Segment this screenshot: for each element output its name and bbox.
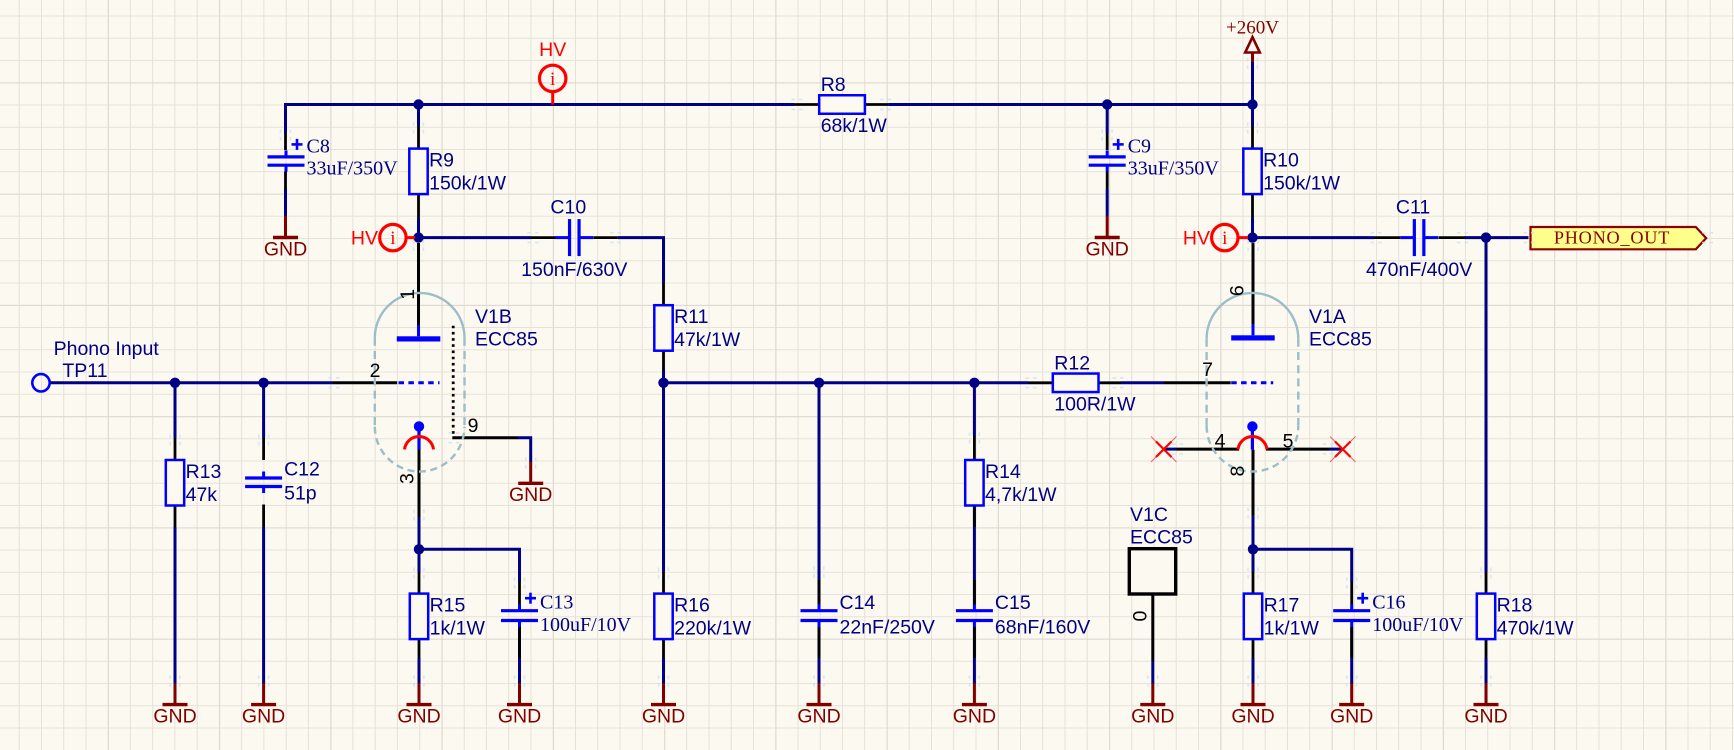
junction node A R14 [969,378,979,388]
junction rail-R9 [413,99,423,109]
junction rail-C9 [1102,99,1112,109]
wire phono input line [50,381,333,384]
wire pin9 to ground [518,438,531,462]
svg-text:R13: R13 [186,461,222,483]
capacitor C13 [501,593,538,627]
wire R9 to HV node [417,218,420,238]
svg-text:R8: R8 [821,74,846,96]
resistor R13 [166,460,184,506]
svg-text:R11: R11 [674,306,708,328]
wire C13 to ground [518,627,521,684]
pin 6 V1A [1252,243,1255,324]
svg-text:1k/1W: 1k/1W [1264,618,1320,640]
no-connect X pin 5 [1330,437,1356,463]
svg-text:C10: C10 [550,197,586,219]
power +260V [1245,37,1260,62]
wire C15 to ground [973,627,976,684]
wire top HV rail left segment [286,103,795,106]
capacitor C9 [1089,139,1126,172]
svg-text:68nF/160V: 68nF/160V [995,617,1090,639]
svg-text:47k/1W: 47k/1W [674,329,741,351]
no-connect X pin 4 [1151,437,1177,463]
pin R11 top [662,283,665,306]
resistor R14 [965,460,983,506]
wire junction to R17 [1252,549,1255,572]
wire R10 drop from rail [1251,105,1254,127]
wire C14 drop [818,383,821,605]
ground [1464,683,1507,727]
pin C13 top [518,582,521,605]
wire junction to C13 [419,549,520,581]
ground [1131,683,1174,727]
wire pin5 stub [1329,448,1342,451]
ground [242,683,285,727]
capacitor C16 [1333,593,1370,627]
svg-text:220k/1W: 220k/1W [674,618,752,640]
pin R9 bottom [417,194,420,219]
svg-text:GND: GND [498,705,541,727]
svg-text:150k/1W: 150k/1W [429,173,507,195]
svg-text:C12: C12 [284,459,320,481]
svg-text:47k: 47k [186,484,218,506]
wire pin8 V1A to junction [1252,515,1255,549]
wire cathode V1B to junction [418,517,421,549]
triode V1A envelope [1207,293,1299,472]
pin C16 top [1350,582,1353,605]
svg-text:470k/1W: 470k/1W [1497,618,1575,640]
wire V1C pin to ground [1151,661,1154,684]
wire C9 to ground [1106,189,1109,217]
wire R14 drop [973,383,976,436]
ground [264,216,307,260]
svg-text:C15: C15 [995,592,1031,614]
svg-text:R10: R10 [1263,150,1299,172]
svg-text:150nF/630V: 150nF/630V [521,259,627,281]
wire C8 drop from rail [284,103,287,133]
svg-text:V1A: V1A [1309,306,1346,328]
pin R15 top [418,572,421,594]
pin 8 V1A [1252,450,1255,515]
pin R16 bottom [662,638,665,658]
pin R12 right [1097,381,1122,384]
wire R12 to pin7 V1A [1121,381,1164,384]
wire R16 drop [662,383,665,572]
wire C9 drop from rail [1106,105,1109,134]
pin C10 right [594,236,618,239]
svg-text:GND: GND [1086,238,1129,260]
ground [153,683,196,727]
power HV right [1212,224,1248,250]
pin connection markers [170,58,1713,686]
wire C11 to port [1465,236,1529,239]
triode V1B envelope [375,293,465,472]
svg-text:ECC85: ECC85 [475,328,538,350]
pin C14 top [818,580,821,605]
svg-text:GND: GND [953,705,996,727]
pin C15 top [973,580,976,605]
pin C11 left [1374,236,1400,239]
svg-text:HV: HV [539,39,566,61]
pin R8 right [864,103,889,106]
pin R18 top [1485,572,1488,594]
junction phono-C12 [258,378,268,388]
wire junction to R15 [418,549,421,572]
svg-text:4,7k/1W: 4,7k/1W [985,484,1057,506]
svg-text:GND: GND [1464,705,1507,727]
svg-text:GND: GND [153,705,196,727]
triode V1B heater [452,326,455,436]
svg-text:i: i [1222,228,1227,249]
power HV left [380,224,415,250]
wire HV node to C11 [1253,236,1375,239]
wire R15 to ground [418,658,421,684]
wire top HV rail right segment [888,103,1252,106]
svg-text:150k/1W: 150k/1W [1263,173,1341,195]
pin C16 bottom [1350,627,1353,659]
svg-text:R12: R12 [1054,352,1090,374]
resistor R8 [819,95,865,114]
pin R12 left [1029,381,1054,384]
svg-text:GND: GND [1131,705,1174,727]
svg-text:C14: C14 [840,592,876,614]
resistor R15 [410,594,428,640]
wire pin4 stub [1164,448,1177,451]
wire C12 drop [262,383,265,438]
pin C14 bottom [818,627,821,659]
wire R16 to ground [662,658,665,684]
capacitor C8 [268,139,305,172]
wire C8 to ground [284,189,287,217]
pin R16 top [662,572,665,594]
wire C10 to R11 corner [618,238,664,283]
svg-text:7: 7 [1202,359,1213,381]
ground [498,683,541,727]
svg-text:68k/1W: 68k/1W [821,115,888,137]
svg-text:2: 2 [370,360,381,382]
resistor R18 [1477,594,1495,640]
triode V1B anode [397,325,441,342]
svg-text:TP11: TP11 [62,360,107,382]
svg-text:C16: C16 [1372,592,1405,614]
wire R13 drop [174,383,177,438]
pin 1 V1B [417,243,420,325]
pin C9 top [1106,133,1109,150]
resistor R11 [654,305,672,351]
wire node A rail [664,381,1029,384]
svg-text:100R/1W: 100R/1W [1054,393,1136,415]
ground [1330,683,1373,727]
svg-text:GND: GND [1330,705,1373,727]
pin 2 V1B [333,381,398,384]
wire C12 to ground [262,528,265,685]
svg-text:100uF/10V: 100uF/10V [1372,614,1464,636]
pin C13 bottom [518,627,521,659]
svg-text:R18: R18 [1497,595,1533,617]
capacitor C11 [1400,219,1438,256]
pin 0 V1C [1151,594,1154,661]
pin R17 top [1252,572,1255,594]
capacitor C15 [956,604,993,627]
pin C12 bottom [262,505,265,528]
wire junction to C16 [1253,549,1352,581]
svg-text:i: i [390,228,395,249]
svg-text:33uF/350V: 33uF/350V [1128,158,1220,180]
svg-text:V1C: V1C [1130,504,1168,526]
svg-text:1: 1 [397,289,419,300]
capacitor C14 [801,604,838,627]
svg-text:GND: GND [1231,705,1274,727]
resistor R17 [1244,594,1262,640]
capacitor C10 [555,219,593,256]
svg-text:PHONO_OUT: PHONO_OUT [1554,228,1670,248]
svg-text:C9: C9 [1128,136,1151,158]
wire R17 to ground [1252,658,1255,684]
svg-text:9: 9 [468,415,479,437]
svg-text:8: 8 [1227,466,1249,477]
wire port junction to R18 [1485,238,1488,572]
pin R13 top [174,438,177,461]
pin R13 bottom [174,505,177,528]
wire R9 drop from rail [417,105,420,127]
triode V1A grid [1231,381,1273,384]
pin 7 V1A [1164,381,1231,384]
svg-text:ECC85: ECC85 [1130,527,1193,549]
pin R14 bottom [973,505,976,527]
svg-text:GND: GND [642,705,685,727]
pin 9 V1B [452,436,518,439]
svg-text:6: 6 [1227,285,1249,296]
power HV top [540,65,566,104]
svg-text:C8: C8 [307,136,330,158]
wire R11 to node A [662,370,665,383]
pin R14 top [973,436,976,461]
capacitor C12 [245,472,282,494]
svg-text:R17: R17 [1264,595,1300,617]
pin C9 bottom [1106,172,1109,190]
junction node A R11 [658,378,668,388]
svg-text:V1B: V1B [475,306,512,328]
svg-text:GND: GND [797,705,840,727]
junction phono-R13 [170,378,180,388]
ground [1086,216,1129,260]
svg-text:GND: GND [509,484,552,506]
pin R8 left [794,103,820,106]
svg-text:+260V: +260V [1226,18,1279,39]
svg-text:470nF/400V: 470nF/400V [1366,259,1472,281]
junction HV-left [413,232,423,242]
svg-text:4: 4 [1215,431,1226,453]
svg-text:HV: HV [1183,227,1210,249]
triode V1A cathode [1238,421,1267,449]
svg-text:5: 5 [1283,431,1294,453]
port PHONO_OUT [1531,227,1707,249]
junction node A C14 [814,378,824,388]
pin R17 bottom [1252,638,1255,658]
wire R14 to C15 [973,505,976,605]
pin C8 bottom [284,172,287,190]
resistor R9 [409,149,427,195]
svg-text:C13: C13 [540,592,573,614]
svg-text:R9: R9 [429,150,454,172]
svg-text:R15: R15 [430,595,466,617]
svg-text:R16: R16 [674,595,710,617]
resistor R10 [1243,149,1261,195]
pin R11 bottom [662,350,665,371]
svg-text:1k/1W: 1k/1W [430,618,486,640]
pin R15 bottom [418,638,421,658]
svg-text:100uF/10V: 100uF/10V [540,614,632,636]
pin R9 top [417,126,420,150]
pin R10 bottom [1251,194,1254,219]
terminal TP11 phono input [32,374,49,391]
pin C15 bottom [973,627,976,659]
triode V1B cathode [405,421,434,449]
svg-text:GND: GND [242,705,285,727]
pin 4 V1A [1177,448,1240,451]
ground [642,683,685,727]
junction rail-R10 [1247,99,1257,109]
ground [397,683,440,727]
wire R13 to ground [174,528,177,685]
svg-text:33uF/350V: 33uF/350V [307,158,399,180]
pin R10 top [1251,126,1254,150]
wire R18 to ground [1485,658,1488,684]
resistor R12 [1053,374,1099,393]
svg-text:Phono Input: Phono Input [54,338,160,360]
pin C8 top [284,133,287,150]
svg-text:R14: R14 [985,461,1021,483]
resistor R16 [654,594,672,640]
svg-text:3: 3 [397,473,419,484]
svg-text:22nF/250V: 22nF/250V [840,617,935,639]
ground [1231,683,1274,727]
junction HV-right [1247,232,1257,242]
triode V1C body [1129,549,1175,594]
svg-text:51p: 51p [284,483,317,505]
junction V1A cathode-R17 [1248,544,1258,554]
wire C14 to ground [818,627,821,684]
svg-text:C11: C11 [1396,197,1430,219]
junction output C11-R18 [1481,232,1491,242]
pin C12 top [262,438,265,460]
triode V1A anode [1231,324,1275,341]
svg-text:i: i [550,69,555,90]
pin C10 left [531,236,556,239]
svg-text:ECC85: ECC85 [1309,328,1372,350]
ground [953,683,996,727]
wire C16 to ground [1350,627,1353,684]
pin 3 V1B [418,450,421,518]
svg-text:HV: HV [351,227,378,249]
triode V1B grid [399,381,440,384]
svg-text:0: 0 [1130,610,1152,621]
pin 5 V1A [1266,448,1329,451]
wire +260V to rail [1251,61,1254,105]
wire R10 to HV node [1251,218,1254,238]
ground [797,683,840,727]
ground [509,462,552,506]
junction cathode-R15 [414,544,424,554]
pin R18 bottom [1485,638,1488,658]
pin C11 right [1439,236,1465,239]
svg-text:GND: GND [264,238,307,260]
wire HV node to C10 [419,236,532,239]
svg-text:GND: GND [397,705,440,727]
